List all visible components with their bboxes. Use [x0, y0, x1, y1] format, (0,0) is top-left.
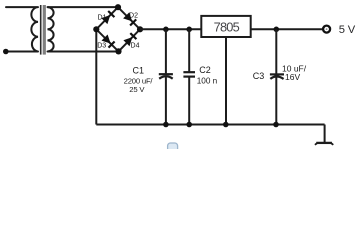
transformer core — [41, 5, 46, 55]
diode D4 (bottom vertex to right vertex) — [123, 33, 136, 46]
node: C2 to rail — [186, 122, 192, 128]
wire: secondary top lead to bridge top — [48, 6, 119, 8]
capacitor C3 (electrolytic) — [270, 29, 284, 124]
regulator U1 7805 box — [201, 16, 250, 37]
svg-text:16V: 16V — [285, 72, 300, 82]
UI artifact: blue scroll button (cut off) — [168, 143, 178, 152]
bridge rectifier diamond edges — [96, 7, 140, 51]
svg-text:5 V: 5 V — [339, 24, 356, 36]
svg-text:C1: C1 — [133, 66, 145, 76]
output terminal 5V — [323, 26, 330, 33]
svg-text:100 n: 100 n — [197, 76, 218, 85]
svg-text:D2: D2 — [129, 12, 138, 19]
transformer T1 secondary winding — [48, 7, 54, 51]
node: C1 tap — [163, 27, 169, 33]
svg-text:7805: 7805 — [214, 19, 240, 34]
transformer primary terminal dot — [3, 49, 9, 55]
wire: 7805 output to 5V terminal — [251, 28, 323, 30]
node: C1 to rail — [163, 122, 169, 128]
bridge vertex junction dots — [115, 4, 121, 10]
wire: rail down to ground symbol — [324, 125, 326, 143]
wire: secondary bottom lead to bridge bottom — [48, 51, 119, 53]
capacitor C1 (electrolytic) — [159, 29, 173, 124]
svg-text:C2: C2 — [199, 65, 211, 75]
svg-text:C3: C3 — [253, 71, 265, 81]
diode D2 (top vertex to right vertex) — [123, 12, 136, 25]
ground rail — [96, 124, 324, 126]
transformer T1 primary winding — [6, 7, 38, 51]
wire: bridge left vertex down to ground rail — [95, 29, 97, 124]
node: 7805 gnd to rail — [223, 122, 229, 128]
wire: DC+ bus from bridge right vertex to 7805 input — [140, 28, 201, 30]
diode D1 (left vertex to top vertex) — [101, 11, 114, 24]
diode D3 (left vertex to bottom vertex) — [102, 35, 115, 48]
node: C3 tap — [274, 27, 280, 33]
svg-text:D1: D1 — [98, 14, 107, 21]
svg-text:2200 uF/: 2200 uF/ — [124, 77, 154, 86]
ground symbol — [315, 143, 333, 145]
node: C3 to rail — [273, 122, 279, 128]
wire: 7805 ground pin down to rail — [225, 38, 227, 125]
svg-text:D3: D3 — [97, 43, 106, 50]
node: C2 tap — [186, 27, 192, 33]
svg-text:25 V: 25 V — [129, 85, 145, 94]
capacitor C2 — [183, 29, 195, 124]
svg-text:D4: D4 — [131, 43, 140, 50]
